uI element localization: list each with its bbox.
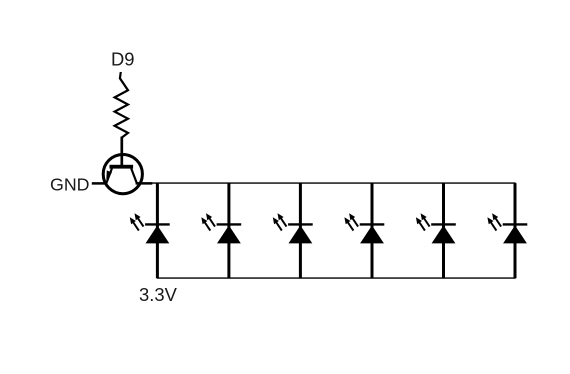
LED D5 [416, 183, 456, 278]
LED D4 emission arrow 1 [347, 222, 353, 231]
wire collector to rail [136, 182, 153, 185]
LED D1 emission arrow 2 [137, 218, 143, 227]
LED D6 cathode bar [503, 223, 528, 225]
svg-text:3.3V: 3.3V [139, 284, 178, 305]
LED D2 cathode bar [217, 223, 242, 225]
wire top rail [151, 182, 516, 184]
LED D6 emission arrow 1 [490, 222, 496, 231]
LED D2 emission arrow 2 [209, 218, 215, 227]
LED D4 [344, 183, 384, 278]
LED D4 emission arrow 2 [352, 218, 358, 227]
transistor Q1 collector line [131, 168, 137, 183]
LED D2 [201, 183, 241, 278]
LED D5 vertical wire [442, 183, 445, 278]
LED D5 cathode bar [431, 223, 456, 225]
LED D1 cathode bar [145, 223, 170, 225]
transistor Q1 base bar [110, 165, 134, 169]
LED D3 anode triangle [289, 225, 313, 243]
LED D2 emission arrow 1 [204, 222, 210, 231]
LED D6 emission arrow 2 [495, 218, 501, 227]
LED D3 cathode bar [288, 223, 313, 225]
LED D4 vertical wire [371, 183, 374, 278]
resistor R1 [115, 72, 128, 138]
LED D5 emission arrow 2 [424, 218, 430, 227]
transistor Q1 emitter arrow [106, 170, 112, 179]
LED D3 vertical wire [299, 183, 302, 278]
LED D3 emission arrow 1 [276, 222, 282, 231]
LED D4 anode triangle [360, 225, 384, 243]
LED D6 [487, 183, 527, 278]
LED D2 anode triangle [217, 225, 241, 243]
LED D1 vertical wire [156, 183, 159, 278]
transistor Q1 body circle [103, 155, 142, 194]
svg-text:GND: GND [50, 174, 90, 194]
LED D5 emission arrow 1 [419, 222, 425, 231]
LED D6 anode triangle [503, 225, 527, 243]
transistor Q1 emitter line [106, 168, 112, 183]
LED D1 [130, 183, 170, 278]
LED D3 emission arrow 2 [280, 218, 286, 227]
LED D6 vertical wire [514, 183, 517, 278]
wire GND to emitter [92, 182, 108, 185]
LED D1 anode triangle [146, 225, 170, 243]
wire bottom rail [157, 277, 516, 279]
LED D4 cathode bar [360, 223, 385, 225]
LED D3 [273, 183, 313, 278]
wire resistor to transistor base [120, 137, 123, 166]
LED D1 emission arrow 1 [133, 222, 139, 231]
svg-text:D9: D9 [111, 48, 135, 69]
LED D2 vertical wire [227, 183, 230, 278]
LED D5 anode triangle [432, 225, 456, 243]
transistor Q1 [103, 155, 142, 194]
